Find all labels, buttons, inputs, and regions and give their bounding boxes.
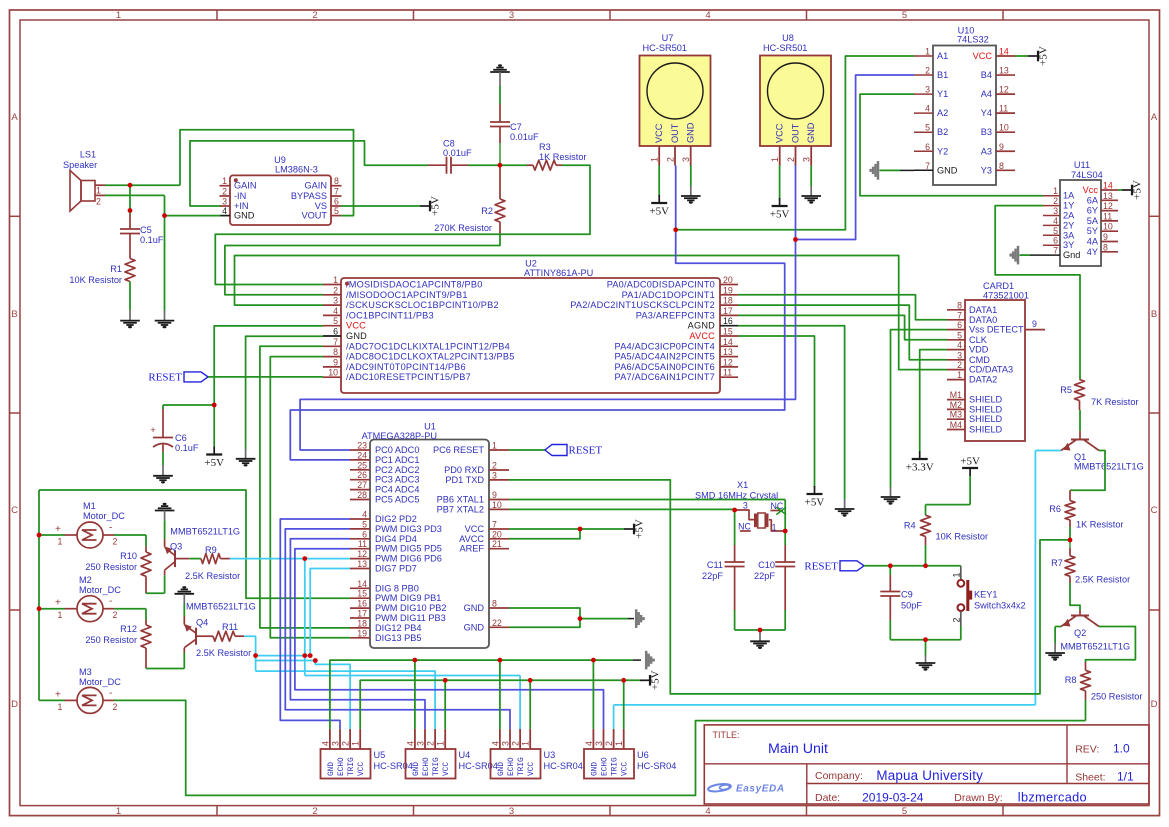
svg-text:A1: A1 xyxy=(937,51,948,61)
wire +5V rail sensors xyxy=(360,680,640,729)
svg-text:3: 3 xyxy=(331,741,341,746)
IC U11 74LS04 xyxy=(1060,180,1101,266)
svg-text:12: 12 xyxy=(999,85,1009,95)
svg-text:23: 23 xyxy=(357,441,367,451)
svg-text:ECHO: ECHO xyxy=(423,757,431,776)
svg-text:10: 10 xyxy=(492,500,502,510)
svg-text:Switch3x4x2: Switch3x4x2 xyxy=(974,601,1026,611)
svg-text:9: 9 xyxy=(333,357,338,367)
svg-text:DATA2: DATA2 xyxy=(969,375,997,385)
svg-text:2: 2 xyxy=(426,741,436,746)
wire U1 PD2 to U5 ECHO blue xyxy=(280,519,350,729)
svg-text:TRIG: TRIG xyxy=(433,757,441,776)
svg-text:4: 4 xyxy=(925,104,930,114)
svg-text:2: 2 xyxy=(341,741,351,746)
svg-text:14: 14 xyxy=(999,47,1009,57)
svg-text:DIG7 PD7: DIG7 PD7 xyxy=(375,564,417,574)
svg-text:PWM DIG9 PB1: PWM DIG9 PB1 xyxy=(375,593,441,603)
svg-text:-: - xyxy=(109,688,112,699)
svg-text:AGND: AGND xyxy=(688,321,716,331)
junction at (39,608.7) xyxy=(37,606,42,611)
svg-text:AVCC: AVCC xyxy=(459,534,484,544)
wire U7 net to U1 PC1 xyxy=(290,230,784,460)
svg-text:PD0 RXD: PD0 RXD xyxy=(444,465,484,475)
junction at (580,618.6) xyxy=(578,616,583,621)
svg-text:-IN: -IN xyxy=(234,191,246,201)
svg-text:4: 4 xyxy=(490,741,500,746)
junction at (310.2,655.6) xyxy=(308,653,313,658)
svg-text:4: 4 xyxy=(333,306,338,316)
sensor U6 HC-SR04 xyxy=(584,749,634,779)
power +5V U11 Vcc xyxy=(1118,189,1122,191)
svg-text:Q4: Q4 xyxy=(196,618,208,628)
svg-text:ECHO: ECHO xyxy=(602,757,610,776)
svg-text:/SCKUSCKSCLOC1BPCINT10/PB2: /SCKUSCKSCLOC1BPCINT10/PB2 xyxy=(346,300,499,310)
svg-text:TRIG: TRIG xyxy=(348,757,356,776)
svg-text:Motor_DC: Motor_DC xyxy=(79,585,121,595)
svg-text:Gnd: Gnd xyxy=(1063,250,1080,260)
resistor R7 2.5K Resistor xyxy=(1069,540,1071,548)
svg-text:1: 1 xyxy=(492,441,497,451)
svg-text:16: 16 xyxy=(357,599,367,609)
svg-text:3: 3 xyxy=(222,197,227,207)
svg-text:6A: 6A xyxy=(1087,195,1099,205)
junction at (130,210.5) xyxy=(128,208,133,213)
svg-text:270K Resistor: 270K Resistor xyxy=(434,223,492,233)
svg-text:GND: GND xyxy=(686,122,696,143)
svg-text:PWM DIG11 PB3: PWM DIG11 PB3 xyxy=(375,613,446,623)
svg-text:4: 4 xyxy=(957,340,962,350)
svg-text:VCC: VCC xyxy=(775,123,785,143)
svg-text:PC4 ADC4: PC4 ADC4 xyxy=(375,485,419,495)
svg-text:U6: U6 xyxy=(637,750,649,760)
svg-text:2: 2 xyxy=(113,610,118,620)
svg-text:2Y: 2Y xyxy=(1063,220,1074,230)
junction at (214.2,405) xyxy=(212,403,217,408)
svg-text:B: B xyxy=(1151,309,1157,320)
ground U2 AGND xyxy=(738,326,845,499)
wire R3 to U2 PB0 loop xyxy=(215,165,590,284)
svg-text:2: 2 xyxy=(333,285,338,295)
wire U2 VCC xyxy=(214,326,323,405)
power +5V above R4 xyxy=(969,476,971,505)
ground U8 GND xyxy=(810,166,812,187)
wire U2 PA2 to CARD1 CMD xyxy=(738,305,947,360)
power +5V U8 xyxy=(779,166,781,200)
svg-text:Y1: Y1 xyxy=(937,89,948,99)
svg-text:74LS04: 74LS04 xyxy=(1071,170,1103,180)
svg-text:1Y: 1Y xyxy=(1063,201,1074,211)
svg-text:3: 3 xyxy=(802,157,812,162)
svg-text:ECHO: ECHO xyxy=(508,757,516,776)
svg-text:1: 1 xyxy=(772,522,777,532)
svg-text:1: 1 xyxy=(351,741,361,746)
junction at (499.9,165.2) xyxy=(498,163,503,168)
svg-text:2: 2 xyxy=(1053,196,1058,206)
resistor R1 10K Resistor xyxy=(125,259,135,282)
svg-text:3: 3 xyxy=(509,10,514,21)
svg-text:NC: NC xyxy=(738,522,751,532)
svg-text:VCC: VCC xyxy=(973,51,993,61)
svg-text:14: 14 xyxy=(357,579,367,589)
svg-text:20: 20 xyxy=(723,275,733,285)
wire U1 PD4 to U4 ECHO blue xyxy=(290,539,425,729)
svg-text:DIG4 PD4: DIG4 PD4 xyxy=(375,534,417,544)
svg-text:25: 25 xyxy=(357,460,367,470)
svg-text:GND: GND xyxy=(937,165,958,175)
svg-text:GND: GND xyxy=(806,122,816,143)
svg-text:4: 4 xyxy=(320,741,330,746)
wire M2 to R12 xyxy=(114,608,146,610)
svg-text:2: 2 xyxy=(96,197,101,207)
IC U10 74LS32 xyxy=(933,46,996,186)
svg-text:R5: R5 xyxy=(1060,385,1072,395)
power +5V near C6 xyxy=(213,405,215,447)
junction at (675.7,229.8) xyxy=(673,227,678,232)
svg-text:MMBT6521LT1G: MMBT6521LT1G xyxy=(1060,642,1130,652)
svg-text:4: 4 xyxy=(362,510,367,520)
svg-text:ATTINY861A-PU: ATTINY861A-PU xyxy=(524,268,593,278)
wire speaker pin2 to ground xyxy=(105,194,165,196)
svg-text:OUT: OUT xyxy=(791,123,801,143)
svg-text:DATA1: DATA1 xyxy=(969,305,997,315)
svg-text:+3.3V: +3.3V xyxy=(906,462,934,474)
svg-text:2: 2 xyxy=(113,537,118,547)
svg-text:74LS32: 74LS32 xyxy=(957,35,989,45)
svg-text:5: 5 xyxy=(362,519,367,529)
power +3.3V CARD1 VDD xyxy=(920,350,947,451)
sensor U7 HC-SR501 xyxy=(640,56,711,147)
svg-text:EasyEDA: EasyEDA xyxy=(736,784,785,795)
power +5V U10 VCC xyxy=(1015,55,1028,57)
wire M1 to R10 xyxy=(114,534,146,536)
junction at (760,630) xyxy=(758,628,763,633)
svg-text:B2: B2 xyxy=(937,127,948,137)
svg-text:15: 15 xyxy=(357,589,367,599)
wire cyan to U4 TRIG xyxy=(256,671,436,729)
svg-text:9: 9 xyxy=(1103,232,1108,242)
svg-text:26: 26 xyxy=(357,470,367,480)
svg-text:Q3: Q3 xyxy=(170,542,182,552)
resistor R2 270K Resistor xyxy=(499,165,501,199)
svg-text:19: 19 xyxy=(723,285,733,295)
svg-text:3: 3 xyxy=(594,741,604,746)
svg-text:8: 8 xyxy=(1103,242,1108,252)
wire U1 VCC to +5V xyxy=(509,528,624,530)
svg-text:2.5K Resistor: 2.5K Resistor xyxy=(196,648,251,658)
wire U2 PB2 to CARD1 CD/DATA3 xyxy=(235,256,948,370)
junction at (255.6,655.6) xyxy=(253,653,258,658)
svg-text:PC6 RESET: PC6 RESET xyxy=(433,445,484,455)
svg-text:U7: U7 xyxy=(662,33,674,43)
svg-text:0.1uF: 0.1uF xyxy=(140,235,164,245)
svg-text:22pF: 22pF xyxy=(754,571,775,581)
svg-text:2: 2 xyxy=(312,10,317,21)
svg-text:A: A xyxy=(11,112,18,123)
svg-text:5: 5 xyxy=(333,316,338,326)
svg-text:15: 15 xyxy=(723,327,733,337)
svg-text:6Y: 6Y xyxy=(1087,206,1098,216)
svg-text:OUT: OUT xyxy=(670,123,680,143)
svg-text:/ADC8OC1DCLKOXTAL2PCINT13/PB5: /ADC8OC1DCLKOXTAL2PCINT13/PB5 xyxy=(346,352,515,362)
svg-text:9: 9 xyxy=(492,490,497,500)
wire cyan to U5 TRIG xyxy=(315,661,350,729)
svg-text:GND: GND xyxy=(413,762,421,776)
svg-text:A: A xyxy=(1151,112,1158,123)
junction at (39,535) xyxy=(37,533,42,538)
svg-text:2: 2 xyxy=(925,66,930,76)
svg-text:13: 13 xyxy=(1103,191,1113,201)
wire motor +5V loop to U1 PB1 xyxy=(39,535,65,700)
wire U2 PB5 to U1 PB5 xyxy=(270,357,350,638)
junction at (925.5,565.8) xyxy=(923,563,928,568)
wire Q3 collector to R10 xyxy=(146,592,165,594)
svg-text:/ADC10RESETPCINT15/PB7: /ADC10RESETPCINT15/PB7 xyxy=(346,372,471,382)
svg-text:Motor_DC: Motor_DC xyxy=(83,511,125,521)
svg-text:/MOSIDISDAOC1APCINT8/PB0: /MOSIDISDAOC1APCINT8/PB0 xyxy=(346,280,483,290)
svg-text:4: 4 xyxy=(1053,216,1058,226)
svg-text:1/1: 1/1 xyxy=(1117,770,1134,784)
capacitor C9 50pF xyxy=(889,566,891,575)
svg-text:2: 2 xyxy=(222,187,227,197)
svg-text:C11: C11 xyxy=(707,560,723,570)
svg-text:4: 4 xyxy=(222,206,227,216)
svg-text:17: 17 xyxy=(357,609,367,619)
svg-text:KEY1: KEY1 xyxy=(974,590,998,600)
ground above Q4 xyxy=(175,589,195,593)
wire R8 bottom to M3 loop xyxy=(114,700,1086,795)
wire C5 branch xyxy=(129,185,131,214)
svg-text:1: 1 xyxy=(952,573,962,578)
wire junction to TXD rail xyxy=(509,480,1070,694)
svg-text:M4: M4 xyxy=(950,420,962,430)
svg-text:DIG 8 PB0: DIG 8 PB0 xyxy=(375,583,419,593)
svg-text:VDD: VDD xyxy=(969,345,989,355)
svg-text:12: 12 xyxy=(723,357,733,367)
svg-text:C7: C7 xyxy=(510,122,522,132)
svg-text:D: D xyxy=(1151,699,1158,710)
svg-text:2019-03-24: 2019-03-24 xyxy=(862,790,924,804)
svg-text:HC-SR04: HC-SR04 xyxy=(374,761,413,771)
svg-text:13: 13 xyxy=(999,66,1009,76)
svg-text:HC-SR501: HC-SR501 xyxy=(763,43,807,53)
svg-text:1: 1 xyxy=(96,186,101,196)
svg-text:1: 1 xyxy=(116,10,121,21)
svg-text:1: 1 xyxy=(925,47,930,57)
wire cyan cross links xyxy=(256,655,311,657)
svg-text:2: 2 xyxy=(666,157,676,162)
resistor R11 2.5K Resistor xyxy=(197,635,213,637)
ground below C6 xyxy=(162,465,164,475)
svg-text:11: 11 xyxy=(1103,211,1112,221)
transistor Q3 MMBT6521LT1G xyxy=(164,520,166,539)
wire U1 TXD handled above; XTAL wires xyxy=(509,499,785,501)
ground speaker net xyxy=(164,195,166,310)
junction at (1070,539.9) xyxy=(1068,538,1073,543)
svg-text:PA0/ADC0DISDAPCINT0: PA0/ADC0DISDAPCINT0 xyxy=(607,280,715,290)
wire Q2 emitter to ground xyxy=(1055,626,1061,628)
svg-text:MMBT6521LT1G: MMBT6521LT1G xyxy=(1074,462,1144,472)
wire Q1 emitter cyan to U6 TRIG xyxy=(1035,450,1061,452)
svg-text:+5V: +5V xyxy=(430,196,442,216)
svg-text:PC3 ADC3: PC3 ADC3 xyxy=(375,475,419,485)
svg-text:A3: A3 xyxy=(981,146,992,156)
junction at (580,529) xyxy=(578,527,583,532)
power +5V U2 AVCC xyxy=(738,336,815,487)
svg-text:GND: GND xyxy=(234,211,255,221)
svg-text:1: 1 xyxy=(1053,186,1058,196)
wire R2 to U2 PB1 loop xyxy=(225,234,500,295)
svg-text:Date:: Date: xyxy=(815,792,840,804)
svg-text:CLK: CLK xyxy=(969,335,988,345)
svg-text:R4: R4 xyxy=(904,521,916,531)
svg-text:1A: 1A xyxy=(1063,191,1075,201)
ground CARD1 Vss DETECT xyxy=(891,330,948,487)
svg-text:VCC: VCC xyxy=(654,123,664,143)
svg-text:REV:: REV: xyxy=(1075,744,1099,756)
junction at (623.7,680.3) xyxy=(621,678,626,683)
svg-text:TRIG: TRIG xyxy=(612,757,620,776)
svg-text:2A: 2A xyxy=(1063,211,1075,221)
svg-text:17: 17 xyxy=(723,306,733,316)
svg-text:1K Resistor: 1K Resistor xyxy=(1076,520,1124,530)
svg-text:PWM DIG6 PD6: PWM DIG6 PD6 xyxy=(375,554,442,564)
svg-text:RESET: RESET xyxy=(804,560,838,572)
svg-text:3: 3 xyxy=(743,501,748,511)
net flag RESET at U1 PC6 xyxy=(509,449,545,451)
svg-text:5: 5 xyxy=(334,206,339,216)
svg-text:PA2/ADC2INT1USCKSCLPCINT2: PA2/ADC2INT1USCKSCLPCINT2 xyxy=(570,300,715,310)
svg-text:18: 18 xyxy=(357,618,367,628)
svg-text:GND: GND xyxy=(591,762,599,776)
svg-text:1K Resistor: 1K Resistor xyxy=(539,152,587,162)
svg-text:16: 16 xyxy=(723,316,733,326)
svg-text:PWM DIG5 PD5: PWM DIG5 PD5 xyxy=(375,544,442,554)
svg-text:7K Resistor: 7K Resistor xyxy=(1091,397,1139,407)
svg-text:U3: U3 xyxy=(544,750,556,760)
svg-text:22pF: 22pF xyxy=(702,571,723,581)
svg-text:+: + xyxy=(55,598,61,609)
svg-text:Main Unit: Main Unit xyxy=(768,741,828,757)
svg-text:13: 13 xyxy=(723,347,733,357)
resistor R6 1K Resistor xyxy=(1069,490,1071,500)
svg-text:4: 4 xyxy=(705,806,710,817)
svg-text:B4: B4 xyxy=(981,70,992,80)
wire U1 PD7 cyan down xyxy=(310,569,350,656)
svg-text:11: 11 xyxy=(358,539,367,549)
svg-text:1: 1 xyxy=(521,741,531,746)
svg-text:1: 1 xyxy=(222,176,227,186)
svg-text:Y3: Y3 xyxy=(981,165,992,175)
svg-text:2: 2 xyxy=(786,157,796,162)
svg-text:PC5 ADC5: PC5 ADC5 xyxy=(375,495,419,505)
svg-text:U2: U2 xyxy=(525,259,537,269)
svg-text:VCC: VCC xyxy=(346,321,366,331)
svg-text:+5V: +5V xyxy=(805,497,825,509)
sensor U5 HC-SR04 xyxy=(321,749,371,779)
wire U9 +IN loop to C8 xyxy=(190,141,428,206)
junction at (734.6,510) xyxy=(732,508,737,513)
svg-text:+IN: +IN xyxy=(234,201,249,211)
svg-text:R1: R1 xyxy=(110,264,122,274)
ground below KEY1 xyxy=(916,663,936,667)
svg-text:VCC: VCC xyxy=(528,762,536,776)
svg-text:1: 1 xyxy=(436,741,446,746)
svg-text:GND: GND xyxy=(464,603,485,613)
wire U8 OUT blue xyxy=(795,166,797,240)
wire U1 PD3 to U3 ECHO blue xyxy=(285,529,510,729)
junction at (445.2,680.3) xyxy=(443,678,448,683)
svg-text:Q1: Q1 xyxy=(1074,452,1086,462)
svg-text:Sheet:: Sheet: xyxy=(1075,772,1105,784)
svg-text:1: 1 xyxy=(333,275,338,285)
svg-text:2: 2 xyxy=(113,702,118,712)
svg-text:+5V: +5V xyxy=(204,457,224,469)
svg-text:8: 8 xyxy=(333,347,338,357)
resistor R3 1K Resistor xyxy=(527,164,533,166)
svg-text:3: 3 xyxy=(957,350,962,360)
svg-text:PA6/ADC5AIN0PCINT6: PA6/ADC5AIN0PCINT6 xyxy=(615,362,715,372)
wire cyan branch down to U3 TRIG xyxy=(304,559,306,676)
svg-text:RESET: RESET xyxy=(569,445,603,457)
svg-text:6: 6 xyxy=(334,197,339,207)
svg-text:10K Resistor: 10K Resistor xyxy=(936,532,989,542)
svg-text:HC-SR501: HC-SR501 xyxy=(643,43,687,53)
svg-text:SHIELD: SHIELD xyxy=(969,395,1003,405)
wire U1 AVCC xyxy=(509,529,580,539)
sensor U8 HC-SR501 xyxy=(760,56,831,147)
svg-text:U5: U5 xyxy=(374,750,386,760)
svg-text:8: 8 xyxy=(999,161,1004,171)
svg-text:D: D xyxy=(11,699,18,710)
wire U1 PD5 to U6 ECHO blue xyxy=(295,549,604,729)
svg-text:6: 6 xyxy=(333,327,338,337)
svg-text:A2: A2 xyxy=(937,108,948,118)
svg-text:GND: GND xyxy=(464,622,485,632)
junction at (304.8,558.6) xyxy=(302,556,307,561)
junction at (304.8,655.6) xyxy=(302,653,307,658)
svg-text:1: 1 xyxy=(957,370,962,380)
svg-text:Speaker: Speaker xyxy=(63,160,97,170)
svg-text:AREF: AREF xyxy=(459,544,484,554)
svg-text:3: 3 xyxy=(925,85,930,95)
svg-text:SHIELD: SHIELD xyxy=(969,404,1003,414)
svg-text:50pF: 50pF xyxy=(901,601,922,611)
svg-text:5A: 5A xyxy=(1087,216,1099,226)
svg-text:GND: GND xyxy=(498,762,506,776)
svg-text:3: 3 xyxy=(416,741,426,746)
svg-text:4: 4 xyxy=(405,741,415,746)
svg-text:0.1uF: 0.1uF xyxy=(175,443,199,453)
junction at (785.2,531) xyxy=(783,529,788,534)
ground U11 Gnd arrow xyxy=(1030,254,1043,256)
svg-text:DIG13 PB5: DIG13 PB5 xyxy=(375,633,421,643)
svg-text:7: 7 xyxy=(333,337,338,347)
svg-text:CARD1: CARD1 xyxy=(983,281,1014,291)
svg-text:PA1/ADC1DOPCINT1: PA1/ADC1DOPCINT1 xyxy=(622,290,715,300)
svg-text:R8: R8 xyxy=(1065,675,1077,685)
svg-text:M3: M3 xyxy=(79,667,92,677)
svg-text:20: 20 xyxy=(492,529,502,539)
svg-text:M1: M1 xyxy=(950,390,962,400)
wire U7 OUT blue xyxy=(675,166,677,230)
svg-text:VCC: VCC xyxy=(622,762,630,776)
motor M2 Motor_DC xyxy=(77,596,103,622)
svg-text:3: 3 xyxy=(681,157,691,162)
svg-text:Company:: Company: xyxy=(815,770,863,782)
svg-text:B3: B3 xyxy=(981,127,992,137)
svg-text:/ADC7OC1DCLKIXTAL1PCINT12/PB4: /ADC7OC1DCLKIXTAL1PCINT12/PB4 xyxy=(346,341,510,351)
